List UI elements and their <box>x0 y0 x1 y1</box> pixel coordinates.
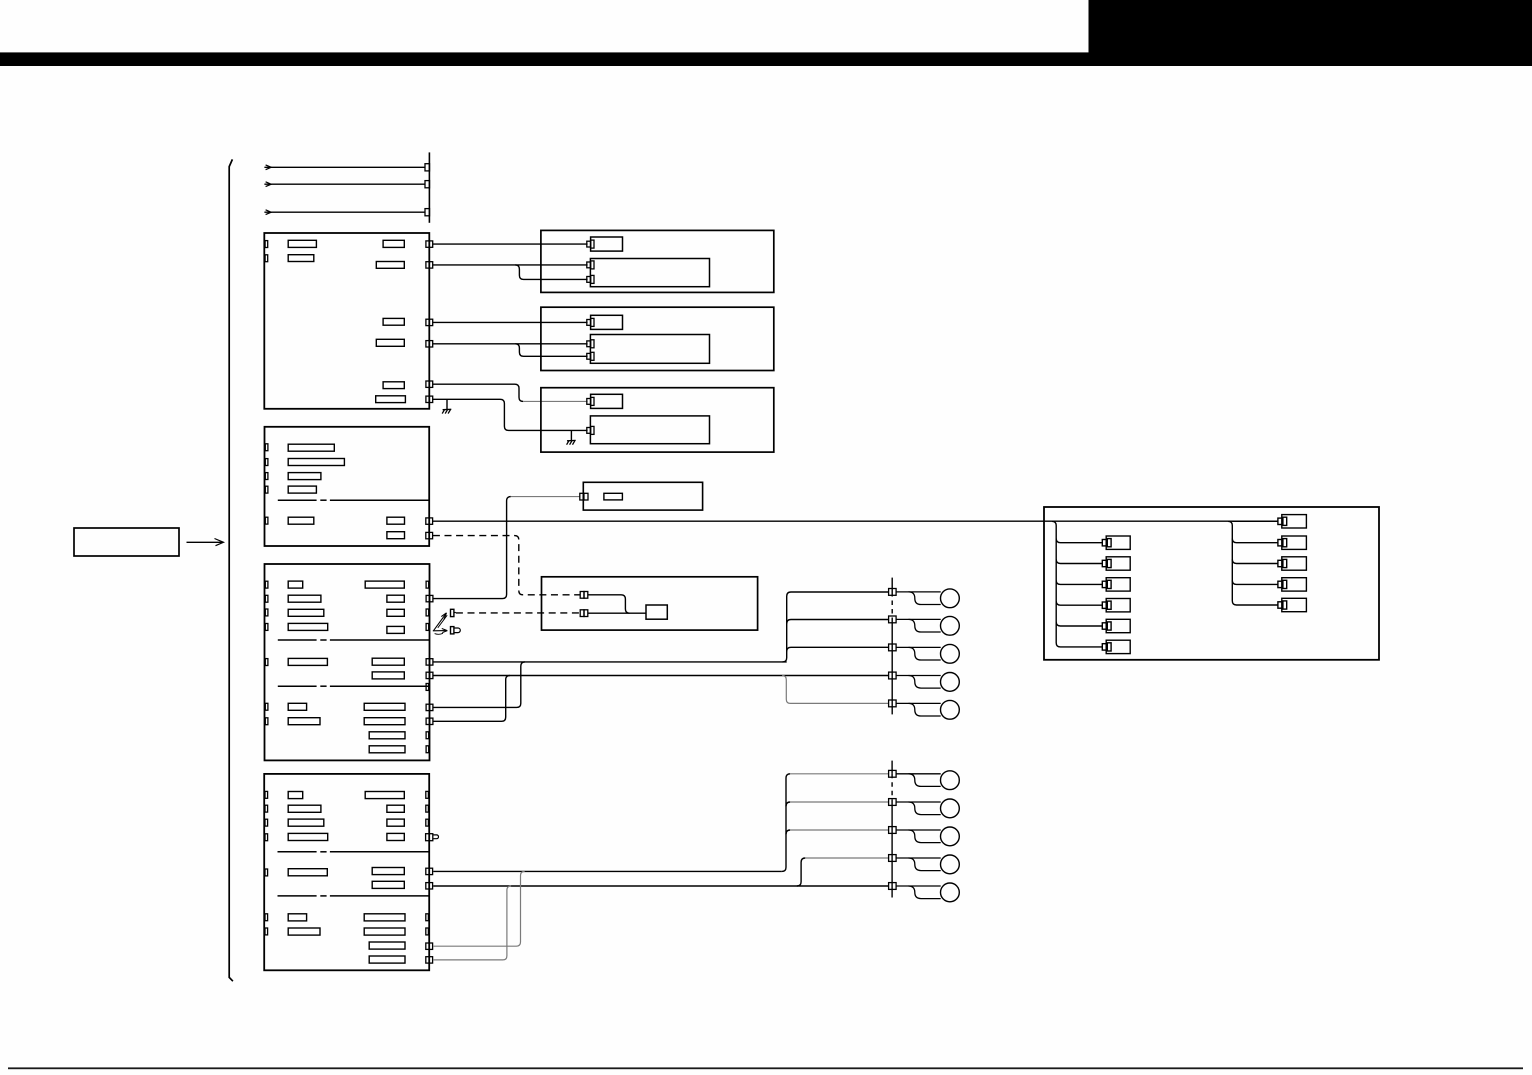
block C label 10 <box>372 658 404 665</box>
unit U2 sub-module <box>590 335 709 364</box>
block A label 8 <box>376 396 406 403</box>
speaker bus 2 top feed <box>790 773 888 775</box>
wire C1 (riser to relay unit) <box>433 497 511 599</box>
block D label 8 <box>387 833 404 840</box>
block A pin 5 <box>426 381 433 387</box>
block C label 2 <box>288 595 321 602</box>
block D label 17 <box>369 956 405 963</box>
block D edge tab 4 <box>265 834 268 841</box>
brace (harness bracket) <box>229 159 233 981</box>
block C label 6 <box>387 595 404 602</box>
block C label 15 <box>364 718 405 725</box>
speaker bus 2 riser <box>782 774 790 872</box>
block A label 4 <box>376 262 404 269</box>
speaker bus 1 branch b <box>787 647 889 651</box>
block C section divider 1 <box>278 639 430 641</box>
block D label 6 <box>387 805 404 812</box>
block C edge tab 3 <box>265 609 268 616</box>
distribution right bus branch 3 <box>1232 580 1278 584</box>
distribution fuse F6 <box>1102 640 1130 653</box>
block C edge tab 6 <box>265 703 268 710</box>
header title block (solid) <box>1089 0 1532 66</box>
distribution fuse R2 <box>1278 536 1307 549</box>
block D label 1 <box>288 792 303 799</box>
wire A4 branch <box>515 344 587 357</box>
block D section divider 2 <box>278 895 430 897</box>
unit U2 label <box>591 315 623 329</box>
block A label 5 <box>383 318 404 325</box>
block A label 2 <box>288 255 314 262</box>
wire D2 <box>433 885 888 887</box>
block D right tab 1 <box>426 791 429 798</box>
distribution fuse F1 <box>1102 536 1130 549</box>
speaker bus line 2 <box>891 761 893 898</box>
connector block B (outline) <box>265 427 430 546</box>
interconnect wire pin1->relay <box>588 595 630 613</box>
speaker SP10 <box>889 883 960 902</box>
block D label 10 <box>372 868 404 875</box>
interconnect wire pin2->relay <box>588 612 646 614</box>
block B label 4 <box>288 486 316 493</box>
plug symbol 1 stub <box>454 612 456 614</box>
dashed link B2 <box>433 536 580 595</box>
block D label 2 <box>288 805 321 812</box>
block B label 3 <box>288 473 321 480</box>
distribution left bus branch 5 <box>1056 622 1102 626</box>
block D label 14 <box>364 914 405 921</box>
connector block A (outline) <box>264 233 429 409</box>
block D edge tab 6 <box>265 914 268 921</box>
block A edge tab 2 <box>265 255 268 262</box>
block D edge tab 2 <box>265 805 268 812</box>
distribution fuse F3 <box>1102 578 1130 591</box>
annotation box <box>74 528 179 556</box>
block C label 12 <box>288 703 306 710</box>
distribution right feed 1 <box>1232 520 1278 522</box>
unit U2 sub-module pin 2 <box>587 352 594 360</box>
block D label 16 <box>369 942 405 949</box>
speaker SP1 <box>889 589 960 608</box>
block A pin 2 <box>426 262 433 268</box>
wire A5 <box>433 384 523 401</box>
block D pin 2 <box>426 883 433 889</box>
block C label 16 <box>369 732 405 739</box>
block D section divider 1 <box>278 851 430 853</box>
block D edge tab 1 <box>265 791 268 798</box>
block C label 11 <box>372 672 404 679</box>
speaker SP8 <box>889 827 960 846</box>
wire A2 <box>433 264 588 266</box>
plug symbol 2 <box>451 627 454 634</box>
speaker SP9 <box>889 855 960 874</box>
block C pin 2 <box>426 659 433 665</box>
plug symbol 1 <box>451 609 454 616</box>
block B edge tab 1 <box>265 444 268 451</box>
block D pin 1 <box>426 868 433 874</box>
block B section divider <box>278 499 429 501</box>
block D label 11 <box>372 881 404 888</box>
block A label 1 <box>288 240 316 247</box>
distribution fuse F5 <box>1102 619 1130 632</box>
block B pin 2 <box>426 532 433 538</box>
block C pin 3 <box>426 672 433 678</box>
block B edge tab 5 <box>265 517 268 524</box>
relay unit label <box>604 493 623 500</box>
block D right tab 2 <box>426 805 429 812</box>
block C right tab 3 <box>426 624 429 631</box>
sketched arrow to plug 1 <box>434 613 448 631</box>
wire A4 <box>433 343 588 345</box>
speaker SP6 <box>889 770 960 789</box>
unit box U3 (outline) <box>541 388 774 452</box>
block D label 9 <box>288 869 327 876</box>
arrow annotation-to-bracket <box>187 539 224 546</box>
wire D4 (merges D2) <box>433 886 511 960</box>
terminal square T3 <box>425 209 430 216</box>
block D stub pin tail <box>433 835 438 839</box>
block C label 4 <box>288 623 328 630</box>
unit U2 sub-module pin 1 <box>587 340 594 348</box>
block D right tab 4 <box>426 914 429 921</box>
speaker bus 1 branch a <box>787 620 889 624</box>
ground G1 <box>442 399 451 413</box>
speaker SP5 <box>889 700 960 719</box>
block D right tab 3 <box>426 819 429 826</box>
relay unit box <box>583 482 702 510</box>
block B edge tab 2 <box>265 459 268 466</box>
block C right tab 5 <box>426 732 429 739</box>
block B label 5 <box>288 517 314 524</box>
block C right tab 4 <box>426 684 429 691</box>
block A pin 6 <box>426 396 433 402</box>
unit box U2 (outline) <box>541 307 774 370</box>
block A label 7 <box>383 382 404 389</box>
distribution fuse F2 <box>1102 557 1130 570</box>
block D label 5 <box>365 792 404 799</box>
distribution fuse R5 <box>1278 598 1307 611</box>
distribution left bus <box>1052 521 1102 647</box>
unit U1 label <box>591 237 623 251</box>
wire T2 with arrowhead <box>264 182 425 187</box>
speaker bus 2 branch a <box>786 802 889 806</box>
wire A5 tail <box>523 400 587 402</box>
wire B1 (long run) <box>433 520 1278 522</box>
ground G2 <box>567 430 576 444</box>
speaker SP4 <box>889 672 960 691</box>
block C label 3 <box>288 609 324 616</box>
block B label 1 <box>288 444 334 451</box>
wire A6 <box>433 399 588 430</box>
block C edge tab 2 <box>265 595 268 602</box>
block A pin 3 <box>426 319 433 325</box>
unit U3 input pin <box>587 397 594 405</box>
block C edge tab 5 <box>265 659 268 666</box>
wire T3 with arrowhead <box>264 210 425 215</box>
block C right tab 6 <box>426 746 429 753</box>
block C pin 4 <box>426 704 433 710</box>
distribution fuse R3 <box>1278 557 1307 570</box>
distribution right bus branch 2 <box>1232 559 1278 563</box>
block C section divider 2 <box>278 685 430 687</box>
block C edge tab 7 <box>265 718 268 725</box>
block D edge tab 7 <box>265 928 268 935</box>
block C pin 5 <box>426 718 433 724</box>
block A label 6 <box>376 339 404 346</box>
block C right tab 1 <box>426 581 429 588</box>
wire T1 with arrowhead <box>264 165 425 170</box>
block D stub pin <box>426 834 433 841</box>
block C label 8 <box>387 626 404 633</box>
distribution right bus <box>1228 521 1278 605</box>
interconnect pin 1 <box>580 592 588 599</box>
distribution box (outline) <box>1044 507 1379 660</box>
distribution fuse F4 <box>1102 599 1130 612</box>
unit U3 label <box>591 394 623 408</box>
block B pin 1 <box>426 518 433 524</box>
block D label 13 <box>288 928 320 935</box>
speaker bus line 1 <box>891 578 893 715</box>
unit U3 sub-module <box>590 416 709 444</box>
distribution left bus branch 4 <box>1056 601 1102 605</box>
block C edge tab 4 <box>265 624 268 631</box>
block C label 9 <box>288 658 327 665</box>
block C label 14 <box>364 703 405 710</box>
relay unit pin <box>580 493 588 500</box>
block B edge tab 4 <box>265 486 268 493</box>
distribution right bus branch 1 <box>1232 539 1278 543</box>
wire C2 <box>433 661 787 663</box>
block D edge tab 5 <box>265 869 268 876</box>
wire C4 (merges C2) <box>433 662 525 708</box>
block D label 7 <box>387 819 404 826</box>
speaker SP3 <box>889 644 960 663</box>
wire D2 riser branch <box>797 858 889 886</box>
block A pin 4 <box>426 341 433 347</box>
block B label 7 <box>387 532 405 539</box>
plug symbol 2 tab <box>454 628 460 633</box>
block C pin 1 <box>426 595 433 601</box>
interconnect pin 2 <box>580 610 588 617</box>
dashed link to plug interface <box>456 612 580 614</box>
block D label 15 <box>364 928 405 935</box>
distribution fuse R1 <box>1278 515 1307 528</box>
speaker SP7 <box>889 799 960 818</box>
unit U1 sub-module pin 1 <box>587 261 594 269</box>
block A label 3 <box>383 240 404 247</box>
block D label 4 <box>288 833 328 840</box>
speaker bus 2 branch b <box>786 830 889 834</box>
unit U1 input pin <box>587 240 594 248</box>
block D right tab 5 <box>426 928 429 935</box>
unit box U1 (outline) <box>541 230 774 292</box>
wire C1 grey tail <box>511 496 580 498</box>
wire C5 (merges C3) <box>433 676 510 722</box>
block D edge tab 3 <box>265 819 268 826</box>
wire C3 <box>433 675 889 677</box>
distribution left bus branch 2 <box>1056 559 1102 563</box>
connector block C (outline) <box>265 564 430 760</box>
unit U2 input pin <box>587 318 594 326</box>
block C right tab 2 <box>426 609 429 616</box>
block A pin 1 <box>426 241 433 247</box>
header rule bar <box>0 52 1532 66</box>
terminal square T2 <box>425 181 430 188</box>
footer rule <box>8 1067 1523 1069</box>
connector block D (outline) <box>264 774 429 970</box>
speaker bus 1 riser <box>783 592 889 662</box>
distribution left bus branch 3 <box>1056 580 1102 584</box>
block B label 2 <box>288 459 344 466</box>
block C label 7 <box>387 609 404 616</box>
block B edge tab 3 <box>265 473 268 480</box>
block C edge tab 1 <box>265 581 268 588</box>
wire D1 <box>433 870 782 872</box>
sketched arrow to plug 2 <box>433 629 448 635</box>
block C label 17 <box>369 746 405 753</box>
terminal bus vertical (top) <box>428 152 430 222</box>
wire A3 <box>433 321 588 323</box>
block B label 6 <box>387 517 405 524</box>
wire A1 <box>433 243 588 245</box>
interconnect relay coil box <box>646 605 667 619</box>
block C label 1 <box>288 581 303 588</box>
wire C3 drop branch <box>782 676 888 704</box>
block D pin 3 <box>426 943 433 949</box>
block D label 12 <box>288 914 306 921</box>
unit U1 sub-module pin 2 <box>587 275 594 283</box>
wire D3 (merges D1) <box>433 871 525 946</box>
wire A2 branch <box>515 265 587 280</box>
speaker SP2 <box>889 616 960 635</box>
block C label 13 <box>288 718 320 725</box>
block D label 3 <box>288 819 324 826</box>
interconnect box (outline) <box>542 577 758 630</box>
terminal square T1 <box>425 164 430 171</box>
block C label 5 <box>365 581 404 588</box>
block D pin 4 <box>426 957 433 963</box>
unit U3 sub-module pin 1 <box>587 426 594 434</box>
block A edge tab 1 <box>265 241 268 248</box>
unit U1 sub-module <box>590 259 709 287</box>
distribution left bus branch 1 <box>1056 539 1102 543</box>
distribution fuse R4 <box>1278 578 1307 591</box>
